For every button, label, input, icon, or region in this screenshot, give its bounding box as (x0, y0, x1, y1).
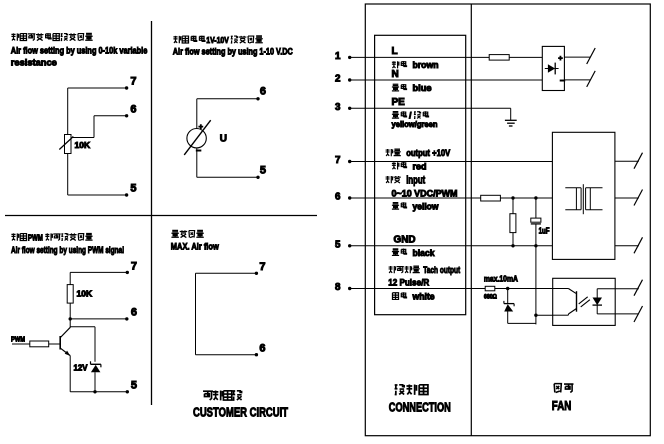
resistor R 10K (PWM pull-up) (67, 285, 73, 304)
svg-text:FAN: FAN (552, 398, 572, 413)
junction wire8/zener (506, 287, 509, 290)
svg-text:12 Pulse/R: 12 Pulse/R (388, 278, 429, 289)
svg-text:U: U (220, 134, 227, 145)
wire: terminal 6 (94, 115, 127, 117)
wire 1 from terminal (350, 56, 490, 58)
node 5 (PWM quadrant) (126, 390, 129, 393)
svg-text:5: 5 (260, 165, 266, 177)
motor output wire 5 (615, 245, 639, 247)
svg-text:MAX. Air flow: MAX. Air flow (171, 242, 219, 253)
motor output wire 6 (615, 197, 639, 199)
opto output wire bottom (597, 313, 639, 315)
svg-text:7: 7 (131, 261, 137, 273)
wire: zener to bottom rail (94, 372, 96, 392)
node 6 (MAX quadrant) (255, 353, 258, 356)
svg-text:7: 7 (259, 261, 265, 273)
svg-text:red: red (413, 161, 427, 171)
label 黄色/绿色 (392, 111, 429, 121)
svg-text:Air flow setting by using 0-1: Air flow setting by using 0-10k variable (11, 46, 148, 57)
wire: 7 to 6 bracket (196, 272, 257, 274)
svg-text:10K: 10K (77, 289, 93, 299)
junction wire6/C1 (534, 196, 537, 199)
wire: emitter down to bottom rail (69, 356, 71, 392)
opto light coupling slashes (579, 297, 588, 304)
svg-text:resistance: resistance (11, 58, 57, 69)
svg-text:+: + (558, 53, 563, 62)
motor box (552, 132, 615, 259)
zener diode D2 (tach clamp) (507, 289, 509, 304)
svg-text:PWM: PWM (28, 233, 43, 243)
wire: terminal 5 (68, 194, 127, 196)
svg-text:−: − (560, 75, 565, 85)
junction: collector node (69, 317, 72, 320)
svg-text:1uF: 1uF (539, 227, 550, 236)
svg-text:PWM: PWM (11, 335, 25, 344)
opto output wire top (597, 288, 639, 290)
svg-text:yellow: yellow (413, 202, 440, 212)
svg-text:yellow/green: yellow/green (392, 119, 438, 129)
svg-text:L: L (392, 46, 398, 57)
svg-text:12V: 12V (74, 363, 88, 373)
label 白色 white (392, 292, 434, 302)
wire 1 to bridge (509, 56, 542, 58)
svg-text:black: black (413, 248, 436, 258)
svg-text:CUSTOMER CIRCUIT: CUSTOMER CIRCUIT (193, 405, 288, 420)
resistor on wire 6 (481, 195, 501, 201)
svg-text:10K: 10K (75, 140, 91, 150)
zener diode D 12V cathode bar (91, 363, 101, 365)
capacitor C1 1uF (535, 198, 537, 218)
heading: 最大风量 (171, 230, 203, 237)
heading: 利用PWM信号设定风量 (11, 233, 92, 243)
transistor collector lead (60, 327, 70, 337)
divider between CONNECTION and FAN (470, 4, 472, 436)
optocoupler U2 box (553, 278, 616, 325)
wire: resistor to collector node (69, 303, 71, 327)
svg-text:Tach output: Tach output (423, 265, 461, 276)
svg-text:680Ω: 680Ω (484, 295, 497, 301)
wire 2 from terminal (350, 79, 543, 81)
svg-text:5: 5 (131, 380, 137, 392)
wire: wiper lead to node 6 (73, 137, 95, 139)
opto phototransistor (568, 289, 576, 294)
svg-text:6: 6 (130, 104, 136, 116)
svg-text:3: 3 (335, 102, 341, 113)
wire: resistor bottom to terminal 5 (67, 154, 69, 196)
svg-text:CONNECTION: CONNECTION (389, 400, 451, 415)
svg-text:1V-10V: 1V-10V (206, 35, 229, 45)
svg-text:5: 5 (130, 183, 136, 195)
svg-text:7: 7 (130, 76, 136, 88)
wire 8 from terminal (350, 288, 486, 290)
svg-text:N: N (392, 69, 399, 80)
wire: source bottom to terminal 5 (196, 148, 198, 177)
connector terminal box (375, 35, 466, 314)
svg-text:GND: GND (394, 234, 416, 245)
svg-text:5: 5 (335, 239, 341, 250)
heading: 利用电源1V-10V设定风量 (173, 35, 262, 45)
label 蓝色 blue (392, 83, 432, 93)
wire: PWM input lead (12, 343, 30, 345)
wire 7 from terminal (350, 161, 553, 163)
wire 6 to motor box (500, 197, 552, 199)
label 黄色 yellow (392, 202, 440, 212)
svg-text:6: 6 (131, 307, 137, 319)
wire: resistor to base (49, 343, 60, 345)
wire: zener to C1 line (508, 322, 536, 324)
wire: terminal 6 to source (197, 98, 258, 100)
wire 6 from terminal (350, 197, 481, 199)
label 输出 output +10V (386, 148, 451, 158)
label: 客户回路 (203, 390, 242, 400)
svg-text:1: 1 (335, 51, 341, 62)
label 黑色 black (392, 248, 436, 258)
svg-text:blue: blue (413, 83, 432, 93)
junction C1/opto lower wire (534, 314, 537, 317)
svg-text:white: white (412, 292, 435, 302)
voltage source U (circle) (187, 129, 206, 148)
svg-text:input: input (406, 175, 425, 187)
fan unit outer box (365, 4, 650, 436)
bridge rectifier U1 box (542, 46, 564, 90)
wire 3 from terminal (350, 107, 511, 109)
zener diode D 12V body (triangle) (91, 365, 101, 372)
opto phototransistor collector wire (495, 288, 568, 290)
resistor (PWM base series) (30, 341, 49, 347)
divider: horizontal line between top and bottom quadrants (5, 215, 317, 217)
wire: vertical from 7-wire down to resistor (67, 88, 69, 135)
motor output wire 7 (615, 160, 639, 162)
wire: terminal 6 (70, 318, 127, 320)
junction wire6/R2 (511, 196, 514, 199)
wire: junction to optocoupler lower pin (536, 314, 553, 316)
svg-text:PE: PE (392, 97, 406, 108)
potentiometer wiper arrow (diagonal) (59, 137, 73, 150)
wire: terminal 7 to potentiometer top (68, 87, 127, 89)
wire 5 from terminal (350, 245, 553, 247)
svg-text:max.10mA: max.10mA (484, 274, 518, 284)
svg-text:Air flow setting by using PWM: Air flow setting by using PWM signal (11, 245, 124, 256)
svg-text:output +10V: output +10V (406, 148, 450, 158)
motor winding symbol (582, 184, 584, 214)
label 红色 red (392, 161, 427, 171)
label 连接器 (395, 384, 428, 394)
source adjust arrow (diagonal) (184, 120, 211, 155)
svg-text:8: 8 (335, 282, 341, 293)
transistor emitter lead with arrow (60, 348, 70, 355)
svg-text:Air flow setting by using 1-1: Air flow setting by using 1-10 V.DC (173, 47, 293, 58)
ground symbol (505, 119, 517, 121)
wire 3 to ground (510, 108, 512, 120)
transistor Q1 NPN base bar (59, 336, 61, 350)
wire: bottom rail to terminal 5 (70, 391, 127, 393)
junction R2/wire5 (511, 244, 514, 247)
resistor on wire 1 (489, 55, 509, 61)
svg-text:2: 2 (335, 74, 341, 85)
svg-text:6: 6 (259, 343, 265, 355)
bridge output wire + (564, 56, 590, 58)
svg-text:6: 6 (335, 192, 341, 203)
svg-text:0~10 VDC/PWM: 0~10 VDC/PWM (392, 189, 458, 200)
label 棕色 brown (392, 60, 439, 70)
bridge diode symbol (545, 68, 548, 70)
resistor R 10K (potentiometer body) (65, 135, 72, 154)
svg-text:7: 7 (335, 155, 341, 166)
wire: collector node to zener branch (70, 326, 95, 328)
label 信号输出 Tach output (389, 265, 461, 276)
svg-text:brown: brown (413, 60, 439, 70)
resistor R2 vertical (512, 198, 514, 214)
wire: terminal 7 (70, 271, 127, 273)
label 风扇 (554, 384, 573, 393)
resistor 680 ohm on wire 8 (485, 286, 495, 291)
label 输入 input (386, 175, 426, 187)
bridge output wire - (564, 79, 590, 81)
divider: vertical line between left quadrants (151, 21, 153, 405)
heading: 利用可变电阻设定风量 (11, 33, 92, 41)
svg-text:6: 6 (260, 86, 266, 98)
svg-text:+: + (199, 122, 204, 131)
opto LED D3 (596, 289, 598, 298)
junction C1/wire5 (534, 244, 537, 247)
junction on bottom rail (93, 390, 96, 393)
